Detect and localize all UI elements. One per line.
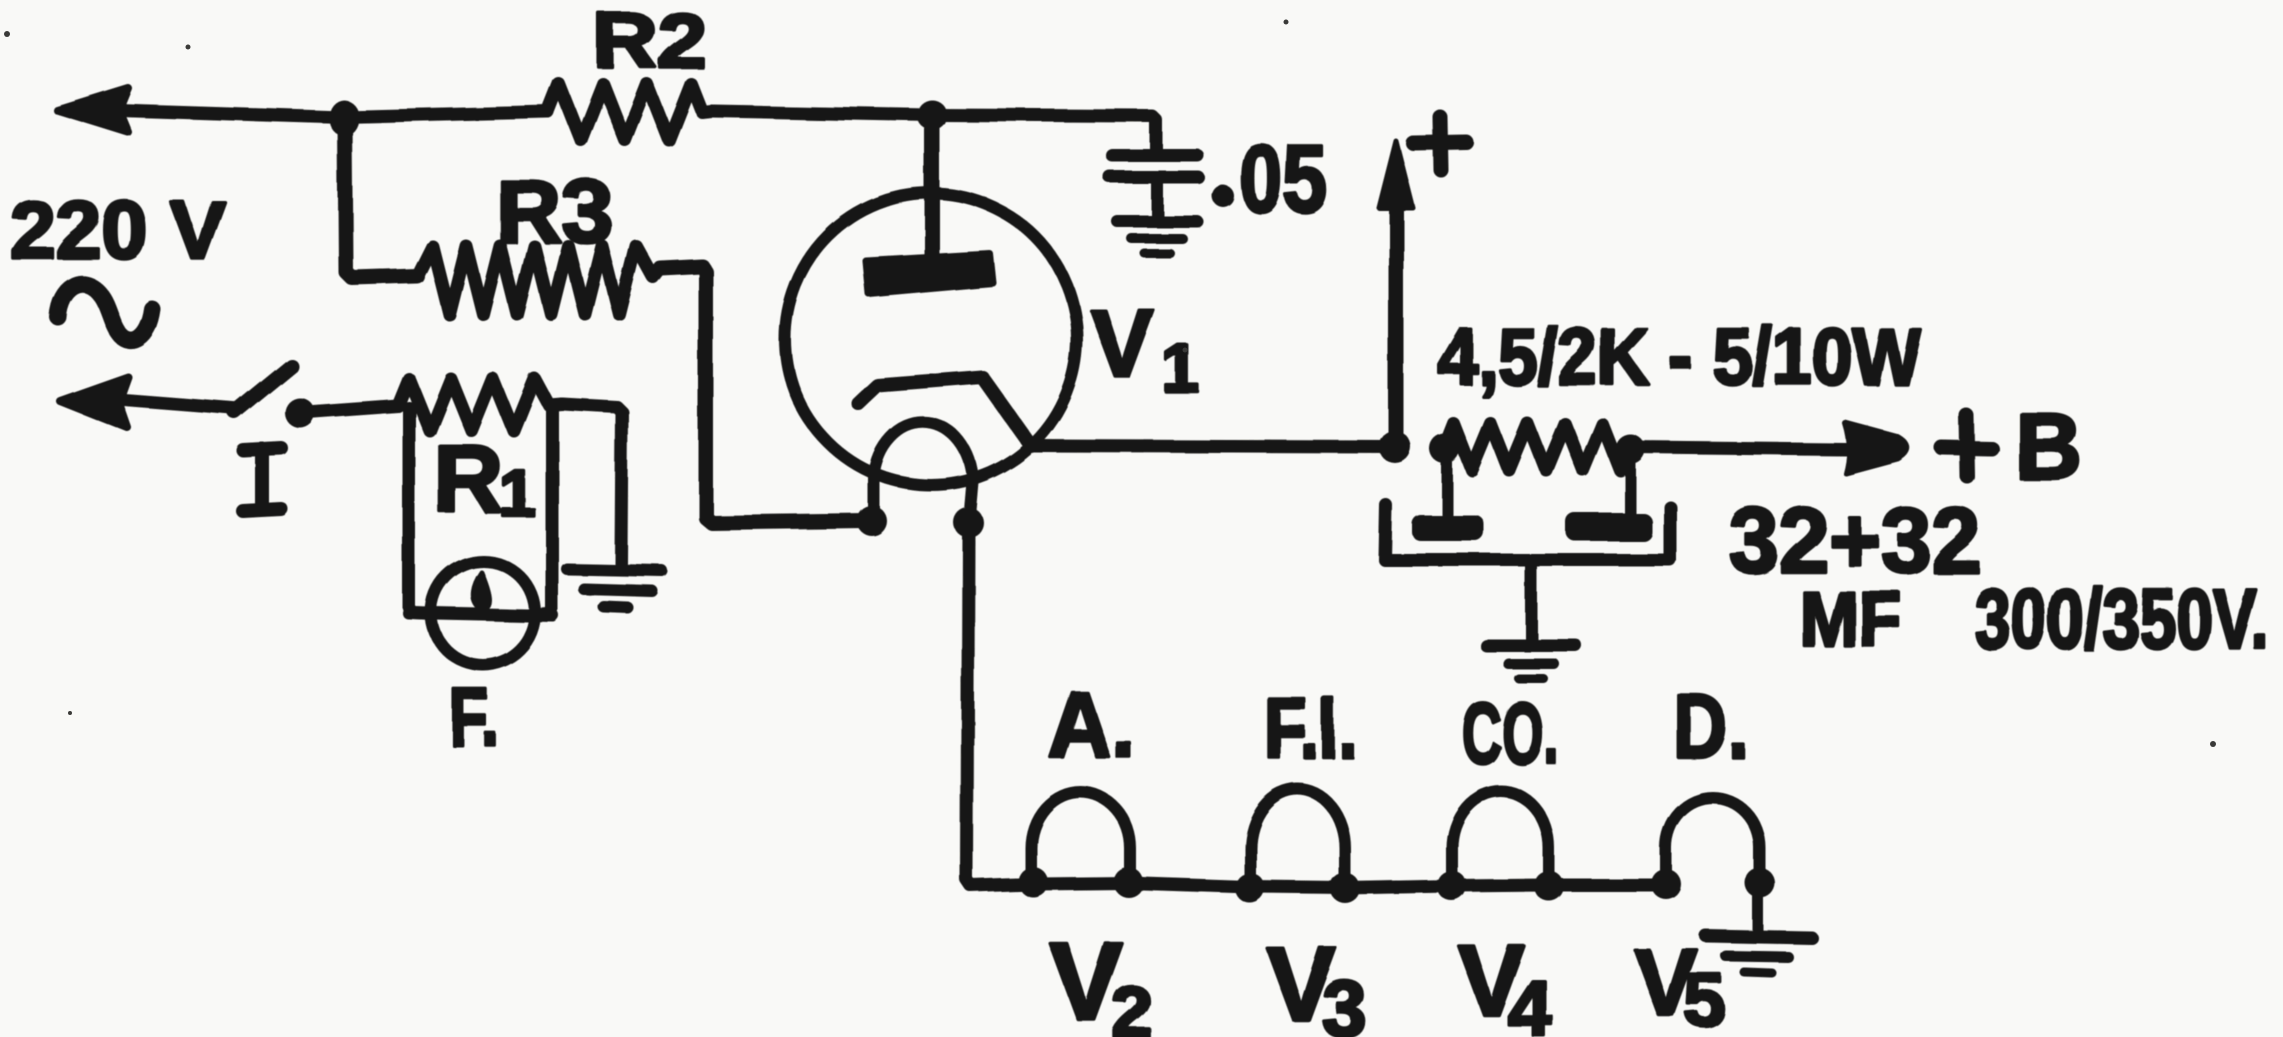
heater loop CO (V4): [1452, 791, 1549, 888]
AC sine symbol: [58, 284, 152, 340]
switch I contact node: [285, 398, 315, 428]
label +B: [1942, 393, 2082, 498]
svg-text:220 V: 220 V: [10, 185, 225, 276]
resistor 4,5/2K end node right: [1615, 434, 1645, 464]
wire R1 left vertical to lamp: [409, 408, 432, 614]
lamp F filament drop: [473, 572, 489, 608]
svg-text:R2: R2: [593, 0, 706, 84]
ground (C .05): [1117, 221, 1197, 253]
svg-text:F.I.: F.I.: [1264, 681, 1357, 776]
wire to +B arrow: [1630, 447, 1847, 449]
wire J1 to R2: [343, 112, 548, 117]
node V3 left: [1235, 873, 1265, 903]
wire V5 to ground: [1753, 884, 1764, 933]
svg-text:R: R: [434, 426, 503, 533]
label V3: [1266, 926, 1367, 1037]
label .05: [1212, 126, 1327, 232]
label + (top): [1413, 117, 1466, 170]
wire R1 right vertical to lamp: [530, 406, 552, 615]
node junction J1: [329, 100, 359, 136]
svg-text:1: 1: [1162, 331, 1200, 407]
svg-text:CO.: CO.: [1462, 686, 1559, 782]
wire R3 to V1 filament left: [660, 266, 866, 523]
resistor R3: [417, 246, 660, 314]
resistor 4,5/2K end node left: [1430, 434, 1460, 464]
label R1: [434, 426, 536, 533]
label I: [243, 448, 281, 511]
svg-text:4: 4: [1508, 964, 1553, 1037]
wire R1 right to ground: [562, 404, 622, 563]
capacitor 32+32 left lead: [1442, 452, 1453, 514]
tube V1 envelope: [785, 193, 1077, 485]
node V5 left: [1651, 869, 1681, 899]
svg-text:V: V: [1090, 290, 1154, 397]
resistor 4,5/2K: [1445, 424, 1630, 470]
capacitor C .05 plates: [1110, 155, 1198, 177]
heater bus wire: [1033, 883, 1666, 888]
node filament right: [953, 507, 983, 537]
resistor R2: [548, 84, 711, 140]
label V4: [1458, 925, 1553, 1037]
heater loop A (V2): [1031, 792, 1130, 884]
ground (V5): [1706, 936, 1812, 973]
ground (switch branch): [567, 569, 662, 608]
svg-text:4,5/2K - 5/10W: 4,5/2K - 5/10W: [1438, 312, 1920, 401]
label V2: [1050, 921, 1152, 1037]
wire branch down from J1 to R3: [345, 117, 417, 278]
node V3 right: [1330, 873, 1360, 903]
node filament left: [857, 506, 887, 536]
node junction J2: [917, 100, 947, 130]
node B+ junction: [1379, 431, 1411, 463]
wire filament right drop to heater bus: [967, 522, 1033, 886]
capacitor 32+32 right plate: [1566, 513, 1652, 541]
svg-text:3: 3: [1322, 964, 1367, 1037]
V1 plate stem: [925, 115, 940, 262]
svg-text:5: 5: [1684, 959, 1725, 1037]
svg-text:MF: MF: [1800, 577, 1902, 663]
svg-text:2: 2: [1112, 973, 1152, 1037]
resistor R1: [398, 379, 562, 431]
svg-text:F.: F.: [449, 672, 499, 763]
wire cathode rail to B+ junction: [1031, 446, 1395, 447]
arrow AC bottom line: [60, 377, 239, 428]
svg-text:A.: A.: [1048, 672, 1136, 777]
label V5: [1634, 930, 1725, 1037]
wire switch to R1: [300, 406, 398, 413]
heater loop F.I. (V3): [1250, 789, 1345, 889]
wire top rail to capacitor .05: [932, 115, 1156, 150]
svg-text:300/350V.: 300/350V.: [1974, 572, 2269, 666]
capacitor 32+32 common plate: [1385, 505, 1670, 560]
capacitor 32+32 right lead: [1625, 452, 1636, 513]
node V5 right: [1745, 868, 1775, 898]
arrow +B head: [1845, 423, 1907, 473]
switch I lever: [235, 366, 291, 412]
svg-text:05: 05: [1239, 126, 1327, 232]
label V1: [1090, 290, 1200, 407]
arrow AC top line: [57, 88, 343, 132]
arrow + (up): [1379, 141, 1413, 447]
capacitor 32+32 left plate: [1412, 515, 1484, 541]
V1 plate: [866, 254, 993, 294]
heater loop D (V5): [1666, 798, 1760, 886]
lamp F envelope: [431, 561, 535, 665]
lamp F horizontal wire through: [409, 613, 553, 616]
V1 cathode: [858, 377, 1031, 446]
svg-text:B: B: [2014, 393, 2082, 498]
ground (32+32): [1486, 645, 1575, 679]
wire R2 to junction J2: [711, 111, 932, 115]
node V2 right: [1113, 867, 1143, 897]
wire 32+32 ground stem: [1525, 560, 1537, 641]
node V4 right: [1534, 871, 1564, 901]
node V4 left: [1437, 871, 1467, 901]
capacitor C .05 lower stem: [1151, 183, 1163, 218]
svg-text:1: 1: [499, 456, 536, 530]
svg-text:R3: R3: [496, 162, 613, 261]
svg-text:D.: D.: [1673, 677, 1748, 777]
V1 filament loop: [874, 423, 973, 522]
node V2 left: [1018, 867, 1048, 897]
